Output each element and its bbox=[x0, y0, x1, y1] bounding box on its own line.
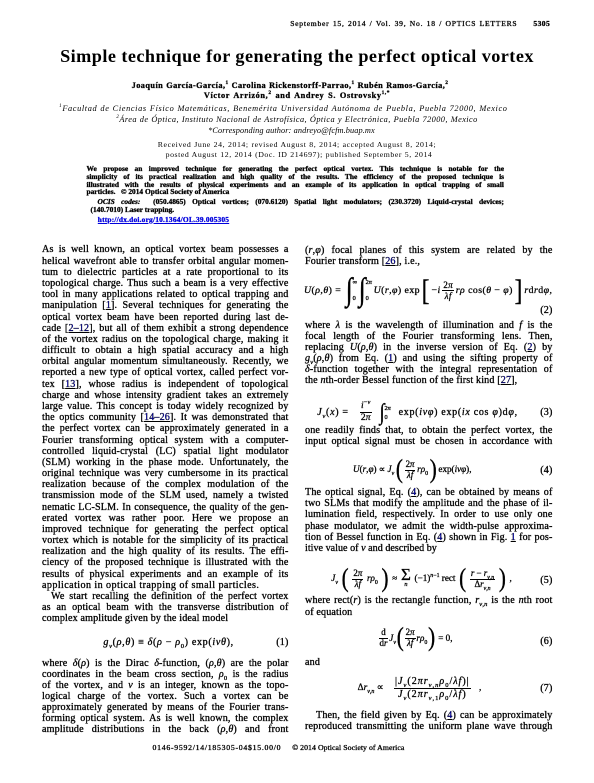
right column paragraph 6 bbox=[305, 710, 553, 721]
journal header line bbox=[290, 19, 550, 28]
right column paragraph 5 bbox=[305, 595, 553, 606]
OCIS codes line 1 bbox=[87, 198, 505, 206]
equation (1) number bbox=[42, 637, 289, 648]
author line 2 bbox=[0, 91, 594, 100]
equation (7) number bbox=[305, 683, 553, 694]
paper title bbox=[0, 46, 594, 66]
equation (1) bbox=[103, 637, 263, 648]
DOI link bbox=[98, 216, 438, 224]
equation (6) bbox=[379, 626, 453, 650]
equation (2) number bbox=[305, 305, 553, 316]
right column paragraph 3 bbox=[305, 425, 553, 436]
equation (5) number bbox=[305, 575, 553, 586]
abstract bbox=[87, 165, 505, 173]
equation (7) bbox=[358, 674, 482, 704]
left column paragraph 1 bbox=[42, 244, 289, 255]
footer fee code bbox=[153, 743, 282, 752]
received line 1 bbox=[0, 140, 594, 149]
affiliation 1 bbox=[59, 104, 508, 113]
corresponding author bbox=[0, 126, 583, 135]
right column paragraph 4 bbox=[305, 487, 553, 498]
equation (5) bbox=[331, 567, 512, 591]
equation (4) number bbox=[305, 465, 553, 476]
right column paragraph 1 bbox=[305, 245, 553, 256]
equation (6) number bbox=[305, 636, 553, 647]
equation (3) bbox=[317, 401, 518, 424]
left column paragraph 2 bbox=[42, 658, 289, 669]
affiliation 2 bbox=[0, 115, 594, 124]
equation (3) number bbox=[305, 407, 553, 418]
author line 1 bbox=[0, 81, 580, 90]
equation (2) bbox=[304, 277, 553, 305]
OCIS codes line 2 bbox=[91, 206, 509, 214]
received line 2 bbox=[0, 150, 594, 159]
equation (4) bbox=[353, 458, 472, 482]
connector word 'and' bbox=[305, 657, 553, 668]
footer copyright bbox=[292, 743, 404, 752]
right column paragraph 2 bbox=[305, 320, 553, 331]
